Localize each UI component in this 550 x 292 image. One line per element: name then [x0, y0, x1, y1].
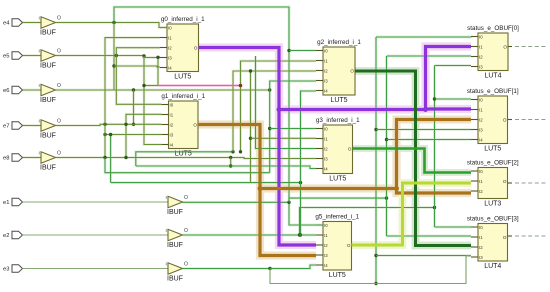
svg-text:LUT4: LUT4: [484, 72, 501, 79]
node purple junction: [277, 107, 282, 112]
svg-text:I1: I1: [324, 58, 328, 63]
svg-text:I0: I0: [170, 102, 174, 107]
wire purple riser to OBUF0.I1: [426, 47, 472, 110]
wire e4 down-branch to g0.I4: [113, 23, 115, 91]
input port e8: [12, 154, 23, 162]
wire e5 net: IBUF out run: [56, 55, 145, 57]
svg-text:I1: I1: [324, 136, 328, 141]
wire g3.I2 riser: [256, 56, 317, 149]
wire e6 net: IBUF out run: [56, 89, 270, 91]
svg-text:O: O: [57, 150, 61, 156]
svg-text:LUT5: LUT5: [329, 272, 346, 279]
node riser x376 tap OBUF1.I3: [374, 128, 377, 131]
wire purple net g0.O: [199, 48, 317, 246]
node magenta left junction: [142, 84, 145, 87]
svg-text:IBUF: IBUF: [167, 209, 183, 216]
wire purple cross run: [279, 108, 426, 111]
svg-text:O: O: [193, 122, 197, 127]
node brown junction right: [394, 186, 399, 191]
svg-text:I4: I4: [324, 88, 328, 93]
svg-text:g5_inferred_i_1: g5_inferred_i_1: [315, 214, 359, 221]
wire e1 net: IBUF out long run: [183, 201, 290, 203]
svg-text:e4: e4: [3, 21, 10, 27]
svg-text:I3: I3: [170, 132, 174, 137]
svg-text:status_e_OBUF[1]: status_e_OBUF[1]: [467, 88, 519, 95]
svg-text:I3: I3: [324, 253, 328, 258]
node g3.I1 tap: [249, 137, 252, 140]
wire e8 port to IBUF: [23, 157, 42, 159]
node g2.I2 tap: [249, 69, 252, 72]
svg-text:I0: I0: [479, 169, 483, 174]
node e8 tap c: [229, 156, 232, 159]
svg-text:g3_inferred_i_1: g3_inferred_i_1: [316, 117, 360, 124]
node OBUF3.I3 tap: [374, 254, 377, 257]
wire g2.I3 riser: [270, 81, 316, 173]
LUT5 status_e_OBUF[1]: [478, 96, 508, 144]
input port e5: [12, 52, 23, 60]
svg-text:I3: I3: [168, 55, 172, 60]
input port e4: [12, 19, 23, 27]
svg-text:O: O: [350, 68, 354, 73]
buffer IBUF (e2): [168, 229, 183, 240]
wire channel lower run to g3.I4: [136, 166, 316, 169]
svg-text:LUT4: LUT4: [484, 263, 501, 270]
svg-text:I3: I3: [324, 156, 328, 161]
node row D riser tap: [109, 133, 112, 136]
svg-text:e5: e5: [3, 54, 9, 60]
svg-text:O: O: [57, 118, 61, 124]
svg-text:I2: I2: [324, 146, 328, 151]
svg-text:I: I: [166, 228, 167, 233]
node e8 tap a: [103, 156, 106, 159]
svg-text:I1: I1: [168, 35, 172, 40]
svg-text:I: I: [166, 195, 167, 200]
svg-text:status_e_OBUF[0]: status_e_OBUF[0]: [467, 25, 519, 32]
svg-text:e7: e7: [3, 124, 9, 130]
LUT5 g5_inferred_i_1: [323, 222, 352, 271]
wire OBUF3.I1 feed from x386 riser: [387, 235, 472, 237]
svg-text:g2_inferred_i_1: g2_inferred_i_1: [317, 39, 361, 46]
svg-text:I0: I0: [324, 223, 328, 228]
node e4 branch to g2.I0: [287, 49, 290, 52]
wire g2.I1 riser: [241, 61, 317, 152]
wire status_e_OBUF[3] dashed output: [508, 235, 513, 237]
svg-text:O: O: [347, 243, 351, 248]
svg-text:I0: I0: [479, 225, 483, 230]
wire status_e_OBUF[0] dashed output: [508, 46, 513, 48]
svg-text:IBUF: IBUF: [40, 164, 56, 171]
svg-text:I1: I1: [479, 235, 483, 240]
input port e3: [12, 265, 23, 273]
wire g3.I1 feed: [251, 137, 317, 139]
node channel upper tap: [231, 150, 234, 153]
svg-text:O: O: [348, 146, 352, 151]
node e1 cross end junction: [385, 196, 388, 199]
node row D tap: [299, 181, 302, 184]
input port e7: [12, 122, 23, 130]
node e3 junction: [268, 267, 271, 270]
buffer IBUF (e1): [168, 196, 183, 207]
svg-text:I0: I0: [168, 25, 172, 30]
svg-text:IBUF: IBUF: [40, 29, 56, 36]
svg-text:IBUF: IBUF: [40, 97, 56, 104]
svg-text:I1: I1: [479, 179, 483, 184]
svg-text:I3: I3: [479, 64, 483, 69]
input port e6: [12, 86, 23, 94]
svg-text:e1: e1: [3, 200, 9, 206]
wire magenta net run: [158, 85, 241, 87]
svg-text:O: O: [184, 195, 188, 201]
wire e3 bottom branch: [270, 256, 471, 284]
node e4 down-branch tap: [112, 64, 115, 67]
wire row D riser x110: [110, 135, 112, 183]
svg-text:I4: I4: [479, 137, 483, 142]
wire OBUF0.I3 feed: [435, 65, 472, 67]
svg-text:g1_inferred_i_1: g1_inferred_i_1: [161, 93, 205, 100]
svg-text:IBUF: IBUF: [40, 62, 56, 69]
wire right riser x435: [434, 66, 436, 228]
svg-text:I4: I4: [168, 65, 172, 70]
svg-text:I0: I0: [324, 48, 328, 53]
node e4 junction: [112, 21, 115, 24]
node e6 junction b: [132, 88, 135, 91]
svg-text:O: O: [57, 83, 61, 89]
svg-text:LUT5: LUT5: [330, 97, 347, 104]
svg-text:status_e_OBUF[3]: status_e_OBUF[3]: [467, 216, 519, 223]
wire e7 net: IBUF out run with jog to g1.I2: [56, 124, 162, 125]
svg-text:LUT5: LUT5: [484, 145, 501, 152]
wire riser x376: [375, 37, 377, 284]
svg-text:I2: I2: [479, 117, 483, 122]
wire g2.I4 riser: [301, 91, 317, 235]
wire g3.I1 / OBUF1.I4 riser x386: [386, 56, 388, 236]
node e6 branch2 tap: [132, 123, 135, 126]
svg-text:I: I: [39, 48, 40, 53]
wire row D: [111, 182, 301, 184]
svg-text:LUT5: LUT5: [174, 73, 191, 80]
svg-text:I3: I3: [324, 78, 328, 83]
svg-text:I2: I2: [170, 122, 174, 127]
svg-text:LUT5: LUT5: [329, 175, 346, 182]
node brown junction: [258, 186, 263, 191]
svg-text:O: O: [503, 44, 507, 49]
input port e2: [12, 231, 23, 239]
wire status_e_OBUF[2] dashed output: [508, 182, 513, 184]
svg-text:I4: I4: [324, 166, 328, 171]
wire e6 port to IBUF: [23, 89, 42, 91]
svg-text:I0: I0: [479, 97, 483, 102]
svg-text:I: I: [39, 15, 40, 20]
wire OBUF0.I2 feed: [387, 55, 472, 57]
svg-text:I3: I3: [479, 127, 483, 132]
buffer IBUF (e6): [41, 84, 56, 95]
LUT5 g3_inferred_i_1: [323, 125, 353, 174]
node g2.I4 riser tap on e2: [299, 233, 302, 236]
svg-text:O: O: [57, 15, 61, 21]
node g3.I0 tap on riser: [268, 127, 271, 130]
svg-text:I0: I0: [324, 126, 328, 131]
wire purple into OBUF1.I1: [426, 107, 472, 110]
wire e3 net: IBUF out run: [183, 268, 271, 270]
svg-text:I4: I4: [170, 142, 174, 147]
node g2.I1 riser tap: [239, 150, 242, 153]
node e2 cross end: [433, 206, 436, 209]
wire bright green net g3.O: [353, 149, 472, 173]
wire OBUF0.I0 feed: [376, 36, 471, 39]
node OBUF1.I0 tap: [433, 97, 436, 100]
LUT5 g1_inferred_i_1: [169, 101, 199, 149]
svg-text:I2: I2: [479, 54, 483, 59]
wire OBUF3.I3 feed: [376, 255, 471, 257]
wire g5.I1 feed: [300, 234, 317, 236]
wire g0.I2 / g1.I0 riser: [116, 48, 161, 105]
node e2 junction: [298, 233, 301, 236]
svg-text:I1: I1: [170, 112, 174, 117]
svg-text:g0_inferred_i_1: g0_inferred_i_1: [161, 16, 205, 23]
svg-text:O: O: [503, 117, 507, 122]
wire z-link e8 to channel lower: [230, 158, 232, 167]
wire brown cross run: [260, 187, 397, 190]
soft halo layer: [23, 21, 42, 24]
wire g0.I3 feed: [144, 56, 160, 58]
wire brown net g1.O: [198, 125, 316, 256]
node e1 end junction: [287, 201, 290, 204]
wire e6 branch2 riser: [133, 90, 135, 124]
svg-text:e6: e6: [3, 88, 9, 94]
wire OBUF1.I3 feed: [376, 129, 471, 131]
svg-text:e2: e2: [3, 233, 9, 239]
svg-text:e3: e3: [3, 267, 9, 273]
wire g3.I0 feed: [270, 128, 316, 130]
wire e2 port to IBUF: [23, 234, 169, 236]
buffer IBUF (e5): [41, 50, 56, 61]
wire g2.I0 feed: [289, 50, 316, 52]
buffer IBUF (e3): [168, 263, 183, 274]
node magenta source tap: [156, 56, 159, 59]
svg-text:I: I: [39, 150, 40, 155]
svg-text:LUT3: LUT3: [484, 200, 501, 207]
wire g1.I1 riser: [126, 114, 162, 157]
node e7 junction: [103, 123, 106, 126]
LUT4 status_e_OBUF[0]: [478, 33, 508, 71]
svg-text:e8: e8: [3, 156, 9, 162]
input port e1: [12, 198, 23, 206]
svg-text:I2: I2: [324, 68, 328, 73]
LUT3 status_e_OBUF[2]: [478, 168, 508, 199]
wire g0.I4 feed: [114, 66, 160, 67]
wire e7 branch up to g0.I1 and down to g1.I3: [105, 38, 160, 158]
wire e2 cross run: [300, 208, 435, 236]
wire e4 port to IBUF: [23, 22, 42, 24]
svg-text:O: O: [194, 45, 198, 50]
wire e3 port to IBUF: [23, 268, 169, 270]
svg-text:I1: I1: [324, 233, 328, 238]
wire magenta lead-in: [144, 85, 158, 87]
svg-text:IBUF: IBUF: [167, 275, 183, 282]
wire e5 port to IBUF: [23, 55, 42, 57]
node e5 crossing tap: [115, 54, 118, 57]
wire dark green net g2.O: [355, 71, 471, 246]
buffer IBUF (e8): [41, 152, 56, 163]
wire g1.I3 feed: [105, 134, 162, 136]
wire e4 branch: riser, top run, down to g5.I0: [114, 7, 323, 225]
svg-text:I0: I0: [479, 34, 483, 39]
wire g2.I2 riser: [233, 71, 316, 152]
svg-text:I: I: [39, 118, 40, 123]
wire magenta source riser: [157, 57, 159, 85]
svg-text:I2: I2: [324, 243, 328, 248]
wire OBUF1.I4 feed: [387, 139, 472, 141]
wire brown down to OBUF2.I2: [397, 189, 472, 194]
svg-text:IBUF: IBUF: [40, 132, 56, 139]
svg-text:O: O: [57, 48, 61, 54]
node e6 end tap on riser: [268, 88, 271, 91]
node g1.I3 tap: [103, 133, 106, 136]
LUT4 status_e_OBUF[3]: [478, 224, 508, 262]
wire OBUF3.I0 feed: [435, 226, 472, 228]
wire chartreuse net g5.O: [352, 183, 472, 245]
node purple junction right: [423, 107, 428, 112]
svg-text:I2: I2: [168, 45, 172, 50]
wire brown riser up to OBUF1.I2: [397, 120, 472, 189]
svg-text:O: O: [184, 228, 188, 234]
svg-text:I1: I1: [479, 44, 483, 49]
svg-text:I: I: [166, 261, 167, 266]
svg-text:I: I: [39, 83, 40, 88]
wire e7 port to IBUF: [23, 125, 42, 127]
svg-text:I1: I1: [479, 107, 483, 112]
wire channel upper run: [136, 152, 233, 166]
svg-text:O: O: [184, 261, 188, 267]
node riser crossing e7: [124, 123, 127, 126]
wire row C from x105: [105, 158, 270, 173]
node e5 junction: [142, 54, 145, 57]
node z-link bottom tap: [229, 164, 232, 167]
LUT5 g0_inferred_i_1: [167, 24, 199, 72]
wire OBUF1.I0 feed: [435, 98, 472, 100]
svg-text:IBUF: IBUF: [167, 242, 183, 249]
wire e3 to g5.I4 jog: [270, 265, 316, 269]
wire e8 net: IBUF out long run to g3.I3: [56, 158, 317, 159]
wire e4 net: IBUF out to g0.I0 with jog: [56, 23, 168, 28]
wire e1 port to IBUF: [23, 201, 169, 203]
wire e1 jog up and cross run: [289, 198, 387, 202]
wire g2.I2 tap riser to g3.I1: [250, 71, 252, 183]
buffer IBUF (e4): [41, 17, 56, 28]
wire e2 net: IBUF out run: [183, 234, 301, 236]
svg-text:I4: I4: [324, 263, 328, 268]
svg-text:status_e_OBUF[2]: status_e_OBUF[2]: [467, 160, 519, 167]
wire status_e_OBUF[1] dashed output: [508, 119, 513, 121]
svg-text:I2: I2: [479, 245, 483, 250]
node magenta end junction: [239, 84, 243, 88]
buffer IBUF (e7): [41, 120, 56, 131]
svg-text:I3: I3: [479, 255, 483, 260]
svg-text:O: O: [503, 179, 507, 184]
node riser x376 bottom tap: [374, 282, 377, 285]
LUT5 g2_inferred_i_1: [323, 47, 355, 95]
node e8 tap b: [124, 156, 127, 159]
node OBUF1.I4 tap: [385, 138, 388, 141]
wire e5 branch: down to g1.I4: [144, 56, 162, 145]
svg-text:O: O: [503, 235, 507, 240]
svg-text:I2: I2: [479, 189, 483, 194]
